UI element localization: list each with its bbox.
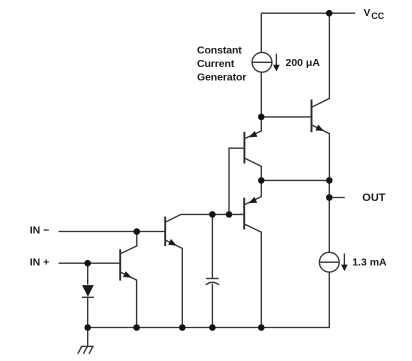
svg-text:200 μA: 200 μA — [286, 57, 321, 69]
svg-text:OUT: OUT — [362, 192, 386, 204]
svg-text:IN −: IN − — [30, 225, 50, 237]
svg-text:CC: CC — [371, 11, 384, 21]
svg-text:Generator: Generator — [197, 72, 246, 84]
svg-text:1.3 mA: 1.3 mA — [352, 257, 387, 269]
svg-text:Constant: Constant — [197, 45, 242, 57]
svg-text:V: V — [364, 8, 371, 19]
svg-text:IN +: IN + — [30, 257, 50, 269]
svg-text:Current: Current — [197, 58, 235, 70]
